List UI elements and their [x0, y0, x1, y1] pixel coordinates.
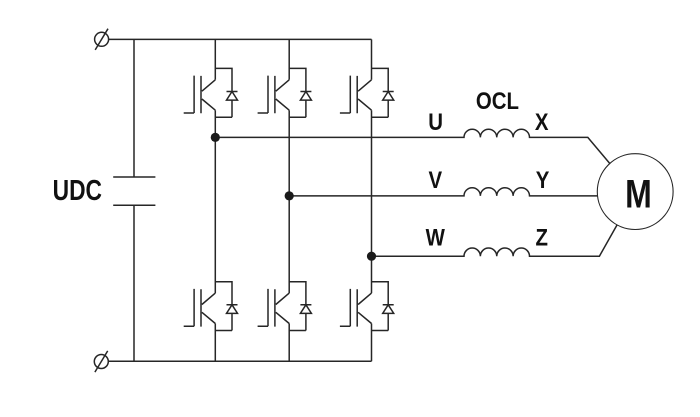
- svg-text:M: M: [625, 171, 652, 216]
- svg-text:W: W: [426, 224, 445, 251]
- svg-text:U: U: [428, 108, 443, 135]
- svg-text:OCL: OCL: [476, 87, 519, 114]
- svg-text:V: V: [428, 167, 442, 194]
- svg-text:UDC: UDC: [53, 176, 102, 207]
- svg-text:Y: Y: [536, 167, 550, 194]
- svg-text:Z: Z: [535, 224, 547, 251]
- svg-text:X: X: [535, 108, 549, 135]
